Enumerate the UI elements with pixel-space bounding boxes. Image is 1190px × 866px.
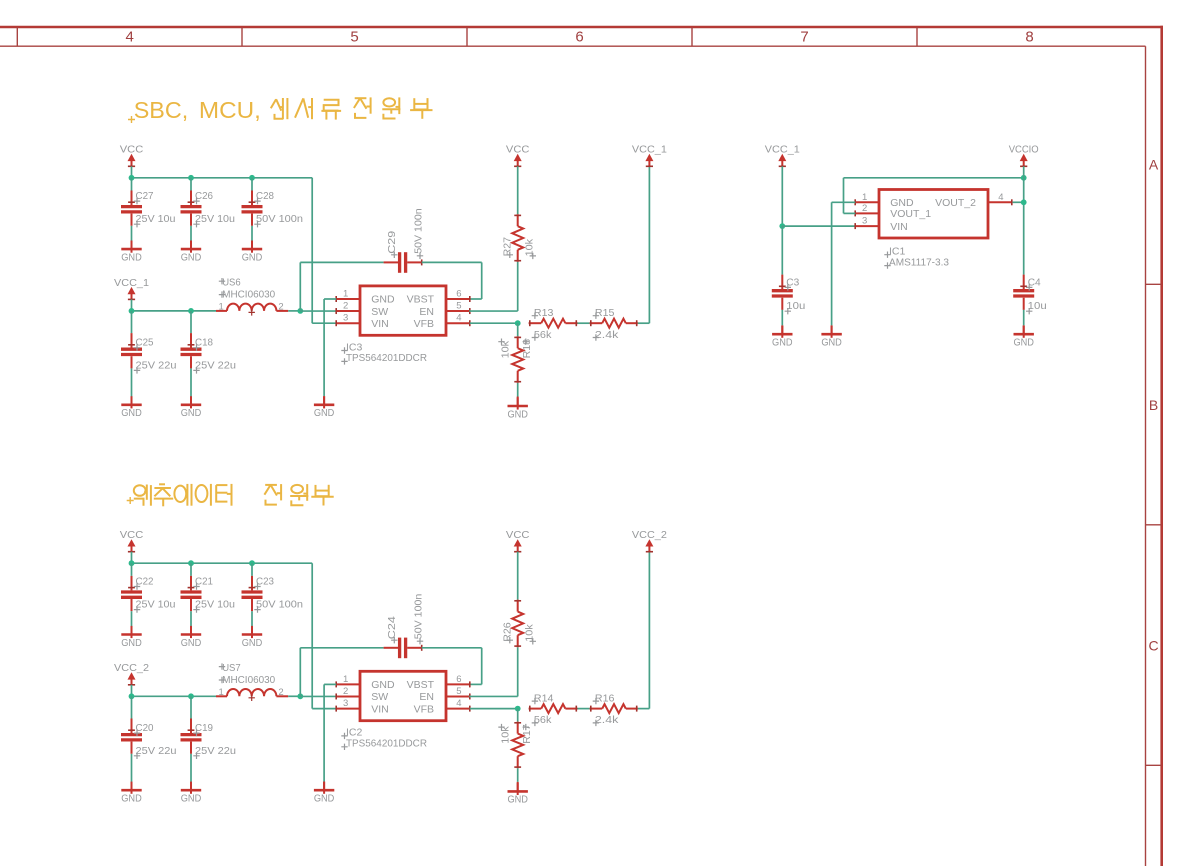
svg-text:GND: GND: [371, 679, 395, 691]
wire pin 4 to VOUT node: [1013, 201, 1024, 203]
svg-text:SBC,: SBC,: [134, 97, 189, 123]
wire C23 to ground: [251, 611, 253, 626]
svg-text:GND: GND: [314, 407, 335, 419]
svg-text:50V 100n: 50V 100n: [413, 594, 425, 640]
svg-text:R15: R15: [595, 307, 615, 319]
wire pin 1 to ground: [832, 201, 856, 203]
svg-text:SW: SW: [371, 306, 388, 318]
node FB junction: [515, 320, 521, 326]
svg-text:25V 10u: 25V 10u: [195, 213, 235, 225]
wire VCC rail: [132, 177, 313, 179]
capacitor C24: [384, 594, 425, 659]
svg-text:VCC: VCC: [120, 529, 144, 541]
ground: [314, 782, 335, 805]
wire VIN feed down: [311, 563, 313, 708]
resistor R13 56k: [529, 307, 578, 341]
svg-text:25V 22u: 25V 22u: [136, 359, 177, 371]
wire C28 to ground: [251, 226, 253, 241]
ground: [772, 326, 793, 349]
svg-text:6: 6: [575, 28, 583, 45]
node VCCIO top junction: [1021, 175, 1027, 181]
svg-text:GND: GND: [507, 408, 528, 420]
wire C25 to ground: [131, 368, 133, 396]
wire EN pullup to pin 5: [517, 262, 519, 311]
wire inductor to SW node: [276, 310, 288, 312]
svg-text:VIN: VIN: [371, 703, 389, 715]
svg-text:GND: GND: [181, 251, 202, 263]
svg-text:MHCI06030: MHCI06030: [222, 674, 275, 686]
svg-text:GND: GND: [507, 794, 528, 806]
wire pin 1 to ground: [324, 298, 336, 300]
wire pin 4 to FB node: [470, 322, 518, 324]
node VIN junction: [779, 223, 785, 229]
svg-text:7: 7: [800, 28, 808, 45]
wire VCCIO down through VOUT node: [1023, 178, 1025, 275]
resistor R16 2.4k: [590, 692, 638, 726]
ground: [314, 396, 335, 419]
wire C20 to ground: [131, 754, 133, 782]
ground: [1013, 326, 1034, 349]
svg-text:R26: R26: [502, 622, 514, 642]
wire FB to output supply riser: [638, 708, 650, 710]
wire VBST corner to pin 6: [470, 683, 482, 685]
node junction row2 left: [129, 308, 135, 314]
svg-text:C: C: [1149, 638, 1159, 654]
svg-text:8: 8: [1025, 28, 1033, 45]
wire between FB resistors: [578, 708, 590, 710]
svg-text:C28: C28: [256, 190, 274, 202]
ground: [121, 241, 142, 264]
svg-text:C27: C27: [136, 190, 154, 202]
capacitor C3: [781, 226, 783, 275]
svg-text:56k: 56k: [534, 714, 552, 726]
wire C21 to ground: [190, 611, 192, 626]
svg-text:25V 22u: 25V 22u: [195, 359, 236, 371]
svg-text:MHCI06030: MHCI06030: [222, 289, 275, 301]
wire SW node up to bootstrap cap: [299, 262, 301, 311]
capacitor C27: [131, 178, 133, 191]
capacitor C4: [1013, 275, 1047, 315]
capacitor C19: [190, 696, 192, 718]
supply symbol VCC_2: [632, 529, 667, 552]
svg-text:4: 4: [456, 698, 461, 709]
svg-text:25V 22u: 25V 22u: [195, 745, 236, 757]
svg-text:2.4k: 2.4k: [595, 329, 619, 341]
wire between FB resistors: [578, 322, 590, 324]
svg-text:25V 22u: 25V 22u: [136, 745, 177, 757]
svg-text:2.4k: 2.4k: [595, 714, 619, 726]
svg-text:5: 5: [350, 28, 358, 45]
resistor R15 2.4k: [590, 307, 638, 341]
wire pin 4 to FB node: [470, 708, 518, 710]
svg-text:10k: 10k: [523, 238, 535, 256]
wire VCC_1 down to VIN node: [781, 166, 783, 226]
svg-text:GND: GND: [181, 407, 202, 419]
svg-text:GND: GND: [121, 251, 142, 263]
svg-text:4: 4: [456, 313, 461, 324]
svg-text:VBST: VBST: [407, 679, 435, 691]
frame outer right line: [1160, 26, 1163, 866]
capacitor C20: [131, 696, 133, 718]
wire C26 to ground: [190, 226, 192, 241]
capacitor C22: [131, 563, 133, 576]
title SBC, MCU power section (latin part): [128, 97, 261, 123]
svg-text:R14: R14: [534, 692, 554, 704]
svg-text:25V 10u: 25V 10u: [136, 599, 176, 611]
svg-text:VCC_1: VCC_1: [765, 144, 800, 156]
svg-text:EN: EN: [419, 306, 434, 318]
node junction C27: [129, 175, 135, 181]
svg-text:GND: GND: [371, 294, 395, 306]
svg-text:C24: C24: [386, 616, 398, 639]
svg-text:10k: 10k: [523, 624, 535, 642]
capacitor C25: [131, 311, 133, 333]
svg-text:R13: R13: [534, 307, 554, 319]
supply symbol VCCIO: [1009, 144, 1039, 167]
node junction row2 left: [129, 693, 135, 699]
svg-text:GND: GND: [121, 407, 142, 419]
capacitor C26: [190, 178, 192, 191]
svg-text:C29: C29: [386, 231, 398, 254]
ground: [121, 626, 142, 649]
title actuator power section: [127, 484, 334, 506]
node junction C26: [188, 175, 194, 181]
frame inner right line: [1145, 46, 1147, 866]
resistor R14 56k: [529, 692, 578, 726]
svg-text:2: 2: [343, 301, 348, 312]
svg-text:GND: GND: [242, 637, 263, 649]
node junction C27: [129, 560, 135, 566]
svg-text:US7: US7: [222, 662, 241, 674]
resistor R18 10k: [517, 323, 519, 336]
svg-text:25V 10u: 25V 10u: [136, 213, 176, 225]
svg-text:VCC_1: VCC_1: [632, 144, 667, 156]
node VOUT junction: [1021, 199, 1027, 205]
svg-text:AMS1117-3.3: AMS1117-3.3: [889, 256, 949, 268]
svg-text:GND: GND: [242, 251, 263, 263]
svg-text:2: 2: [343, 686, 348, 697]
wire bootstrap cap to VBST corner: [422, 647, 482, 649]
frame row letters A B C: [1149, 157, 1159, 654]
ground: [181, 241, 202, 264]
ground: [507, 397, 528, 420]
wire inductor to SW node: [276, 695, 288, 697]
svg-text:10u: 10u: [786, 300, 805, 312]
wire SW node to pin 2: [300, 695, 336, 697]
frame row dividers: [1146, 284, 1162, 765]
svg-text:4: 4: [998, 192, 1003, 203]
wire VCC_1 rail: [132, 310, 217, 312]
svg-text:50V 100n: 50V 100n: [256, 599, 303, 611]
capacitor C29: [384, 208, 425, 273]
svg-text:6: 6: [456, 289, 461, 300]
node FB junction: [515, 706, 521, 712]
wire EN pullup to pin 5: [517, 647, 519, 696]
svg-text:10u: 10u: [1028, 300, 1047, 312]
svg-text:2: 2: [862, 203, 867, 214]
svg-text:VCC_2: VCC_2: [632, 529, 667, 541]
node SW junction: [297, 308, 303, 314]
svg-text:C23: C23: [256, 576, 274, 588]
svg-text:B: B: [1149, 397, 1158, 413]
supply symbol VCC_1: [632, 144, 667, 167]
wire VIN feed to pin 3: [312, 708, 336, 710]
wire VCC rail: [132, 562, 313, 564]
svg-text:A: A: [1149, 157, 1159, 173]
frame column numbers 4 5 6 7 8: [126, 28, 1034, 45]
svg-text:6: 6: [456, 674, 461, 685]
resistor R17 10k: [517, 709, 519, 722]
svg-text:C19: C19: [195, 722, 213, 734]
ground: [242, 241, 263, 264]
svg-text:3: 3: [862, 216, 867, 227]
svg-text:1: 1: [219, 687, 224, 698]
inductor US6 MHCI06030: [219, 277, 284, 316]
svg-text:1: 1: [862, 192, 867, 203]
wire VCC_1 to rail2: [131, 299, 133, 311]
svg-text:50V 100n: 50V 100n: [256, 213, 303, 225]
wire C4 to ground: [1023, 310, 1025, 326]
svg-text:C22: C22: [136, 576, 154, 588]
title hangul sensor power: [271, 97, 433, 119]
wire FB bottom resistor to ground: [517, 383, 519, 397]
wire FB bottom resistor to ground: [517, 768, 519, 782]
svg-text:50V 100n: 50V 100n: [413, 208, 425, 254]
ground: [821, 326, 842, 349]
svg-text:GND: GND: [821, 337, 842, 349]
supply symbol VCC: [506, 529, 530, 552]
supply symbol VCC: [120, 529, 144, 552]
svg-text:3: 3: [343, 698, 348, 709]
supply symbol VCC: [506, 144, 530, 167]
svg-text:56k: 56k: [534, 329, 552, 341]
resistor R27 10k: [517, 166, 519, 214]
wire C18 to ground: [190, 368, 192, 396]
capacitor C23: [251, 563, 253, 576]
svg-text:C26: C26: [195, 190, 213, 202]
svg-text:VFB: VFB: [414, 318, 434, 330]
ground: [181, 782, 202, 805]
ground: [181, 396, 202, 419]
svg-text:3: 3: [343, 313, 348, 324]
capacitor C21: [190, 563, 192, 576]
supply symbol VCC_1: [765, 144, 800, 167]
svg-text:GND: GND: [1013, 337, 1034, 349]
svg-text:GND: GND: [121, 793, 142, 805]
ground: [121, 396, 142, 419]
regulator IC IC3 TPS564201DDCR: [336, 286, 470, 365]
wire SW node up to bootstrap cap: [299, 648, 301, 697]
svg-text:VCC: VCC: [506, 144, 530, 156]
svg-text:US6: US6: [222, 277, 241, 289]
regulator IC1 AMS1117-3.3: [855, 190, 1012, 269]
node junction row2 mid: [188, 693, 194, 699]
ground: [181, 626, 202, 649]
svg-text:VCC: VCC: [506, 529, 530, 541]
capacitor C18: [190, 311, 192, 333]
svg-text:C21: C21: [195, 576, 213, 588]
svg-text:GND: GND: [181, 637, 202, 649]
node junction C26: [188, 560, 194, 566]
frame outer top line: [0, 26, 1163, 29]
svg-text:VFB: VFB: [414, 703, 434, 715]
node junction C28: [249, 175, 255, 181]
svg-text:TPS564201DDCR: TPS564201DDCR: [346, 352, 427, 364]
wire VOUT_1 loop to VCCIO: [844, 212, 856, 214]
inductor US7 MHCI06030: [219, 662, 284, 701]
wire VIN feed to pin 3: [312, 322, 336, 324]
ground: [507, 783, 528, 806]
svg-text:VOUT_2: VOUT_2: [935, 197, 976, 209]
svg-text:EN: EN: [419, 691, 434, 703]
svg-text:1: 1: [219, 301, 224, 312]
wire VCC to rail: [131, 166, 133, 178]
svg-text:VCC: VCC: [120, 144, 144, 156]
ground: [242, 626, 263, 649]
svg-text:VOUT_1: VOUT_1: [890, 208, 931, 220]
svg-text:5: 5: [456, 301, 461, 312]
wire FB to output supply riser: [638, 322, 650, 324]
svg-text:1: 1: [343, 289, 348, 300]
svg-text:25V 10u: 25V 10u: [195, 599, 235, 611]
wire SW node to pin 2: [300, 310, 336, 312]
svg-text:4: 4: [126, 28, 134, 45]
node SW junction: [297, 693, 303, 699]
svg-text:C20: C20: [136, 722, 154, 734]
resistor R26 10k: [517, 552, 519, 600]
node junction C28: [249, 560, 255, 566]
frame inner top line: [0, 45, 1146, 47]
wire pin 1 to ground: [324, 683, 336, 685]
regulator IC IC2 TPS564201DDCR: [336, 671, 470, 750]
wire C3 to ground: [781, 310, 783, 326]
ground: [121, 782, 142, 805]
svg-text:VCC_1: VCC_1: [114, 277, 149, 289]
svg-text:VIN: VIN: [890, 221, 908, 233]
svg-text:GND: GND: [772, 337, 793, 349]
wire C22 to ground: [131, 611, 133, 626]
svg-text:1: 1: [343, 674, 348, 685]
wire VIN node to pin 3: [782, 225, 855, 227]
svg-text:C25: C25: [136, 337, 154, 349]
svg-text:GND: GND: [314, 793, 335, 805]
svg-text:MCU,: MCU,: [199, 97, 261, 123]
frame column dividers: [17, 27, 917, 46]
wire C19 to ground: [190, 754, 192, 782]
svg-text:GND: GND: [181, 793, 202, 805]
wire VIN feed down: [311, 178, 313, 323]
svg-text:TPS564201DDCR: TPS564201DDCR: [346, 738, 427, 750]
svg-text:VBST: VBST: [407, 294, 435, 306]
svg-text:SW: SW: [371, 691, 388, 703]
wire VCC_1 rail: [132, 695, 217, 697]
wire VBST corner to pin 6: [470, 298, 482, 300]
svg-text:VCC_2: VCC_2: [114, 662, 149, 674]
node junction row2 mid: [188, 308, 194, 314]
capacitor C28: [251, 178, 253, 191]
wire bootstrap cap to VBST corner: [422, 261, 482, 263]
svg-text:R27: R27: [502, 237, 514, 257]
svg-text:R16: R16: [595, 692, 615, 704]
wire VCC to rail: [131, 552, 133, 564]
svg-text:C18: C18: [195, 337, 213, 349]
svg-text:GND: GND: [121, 637, 142, 649]
wire VCC_1 to rail2: [131, 685, 133, 697]
wire C27 to ground: [131, 226, 133, 241]
svg-text:VIN: VIN: [371, 318, 389, 330]
svg-text:5: 5: [456, 686, 461, 697]
supply symbol VCC_1: [114, 277, 149, 300]
supply symbol VCC: [120, 144, 144, 167]
supply symbol VCC_2: [114, 662, 149, 685]
